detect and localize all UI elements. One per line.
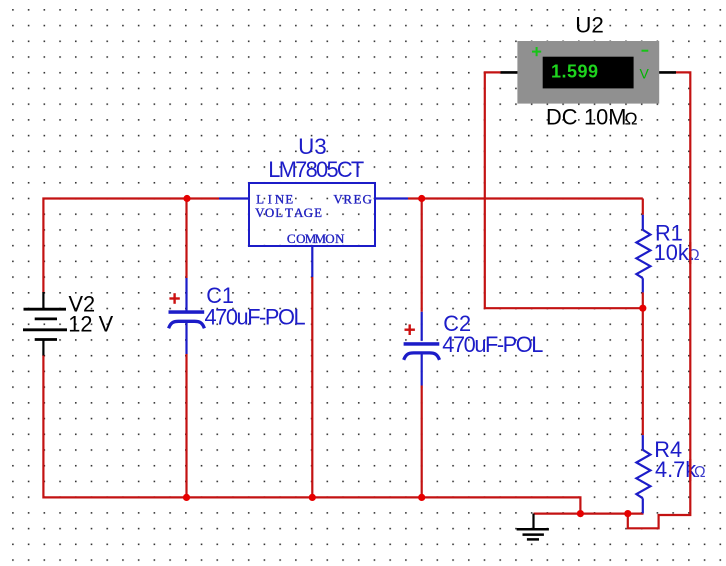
- svg-text:V: V: [333, 192, 343, 207]
- svg-text:470uF-POL: 470uF-POL: [442, 332, 543, 357]
- svg-text:E: E: [353, 192, 361, 207]
- svg-text:N: N: [335, 231, 345, 246]
- svg-text:Ω: Ω: [625, 109, 638, 129]
- svg-text:10M: 10M: [584, 105, 626, 130]
- svg-text:R: R: [343, 192, 352, 207]
- svg-text:E: E: [314, 205, 322, 220]
- svg-text:LM7805CT: LM7805CT: [268, 157, 364, 182]
- svg-text:V: V: [255, 205, 265, 220]
- svg-text:V: V: [640, 65, 650, 81]
- svg-text:O: O: [265, 205, 274, 220]
- svg-text:10k: 10k: [654, 240, 689, 265]
- svg-text:470uF-POL: 470uF-POL: [205, 305, 306, 330]
- svg-text:12 V: 12 V: [68, 312, 113, 337]
- svg-text:O: O: [325, 231, 334, 246]
- svg-text:T: T: [285, 205, 293, 220]
- svg-text:U2: U2: [575, 12, 604, 37]
- svg-text:C: C: [287, 231, 296, 246]
- svg-text:G: G: [362, 192, 371, 207]
- svg-text:1.599: 1.599: [551, 62, 599, 82]
- svg-text:Ω: Ω: [694, 464, 706, 481]
- svg-text:A: A: [294, 205, 304, 220]
- svg-text:DC: DC: [546, 105, 577, 130]
- svg-text:L: L: [275, 205, 283, 220]
- svg-text:U3: U3: [298, 134, 327, 159]
- svg-text:G: G: [304, 205, 313, 220]
